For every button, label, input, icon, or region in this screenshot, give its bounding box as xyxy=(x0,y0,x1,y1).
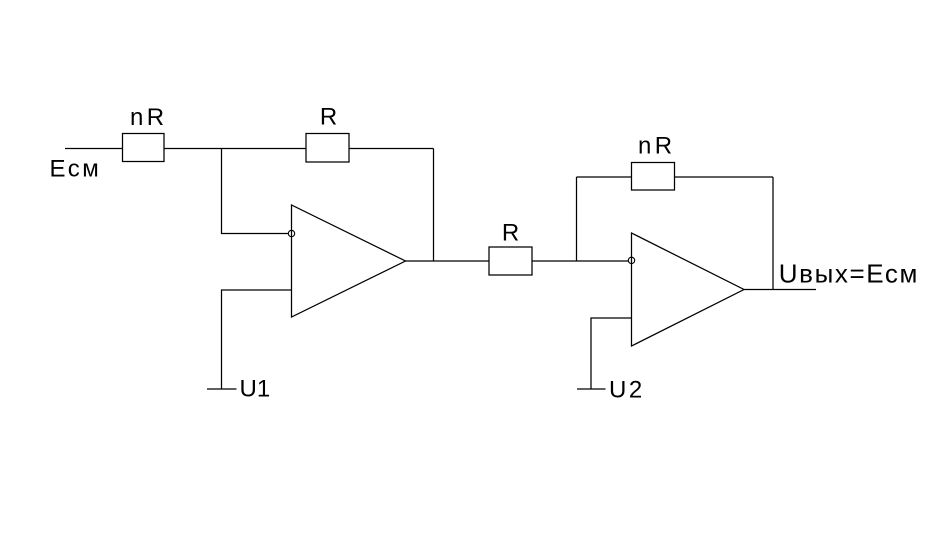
wire R to feedback corner xyxy=(349,148,434,150)
resistor R (feedback, U1) xyxy=(306,134,349,163)
svg-text:U2: U2 xyxy=(609,377,645,404)
op-amp U2 xyxy=(632,233,745,346)
svg-text:Uвых=Есм: Uвых=Есм xyxy=(779,259,919,289)
resistor nR (feedback, U2) xyxy=(632,163,675,191)
ground U1 xyxy=(207,388,237,390)
wire U2 feedback top left xyxy=(577,176,632,178)
wire nR to R xyxy=(164,148,306,150)
wire R to U2 inverting input xyxy=(532,260,628,262)
wire U2 feedback top right xyxy=(675,176,774,178)
svg-text:nR: nR xyxy=(638,133,676,160)
svg-text:R: R xyxy=(320,103,337,130)
svg-text:R: R xyxy=(502,219,519,246)
wire input Ecm xyxy=(65,148,123,150)
resistor nR (input, U1) xyxy=(123,134,165,162)
inverting input bubble U2 xyxy=(628,257,634,263)
svg-text:Есм: Есм xyxy=(50,155,102,182)
op-amp U1 xyxy=(292,205,406,317)
wire U2 non-inverting input xyxy=(591,318,632,389)
wire U2 output xyxy=(744,289,816,291)
svg-text:nR: nR xyxy=(130,104,168,131)
ground U2 xyxy=(577,388,606,390)
svg-text:U1: U1 xyxy=(240,376,271,403)
wire U2 feedback right vertical xyxy=(772,177,774,290)
wire feedback vertical U1 xyxy=(433,149,435,262)
inverting input bubble U1 xyxy=(288,230,294,236)
wire U2 feedback left vertical xyxy=(576,177,578,261)
wire U1 non-inverting input xyxy=(222,290,292,389)
resistor R (coupling) xyxy=(489,247,532,275)
wire U1 output xyxy=(406,260,490,262)
wire node to U1 inverting input xyxy=(222,149,289,234)
